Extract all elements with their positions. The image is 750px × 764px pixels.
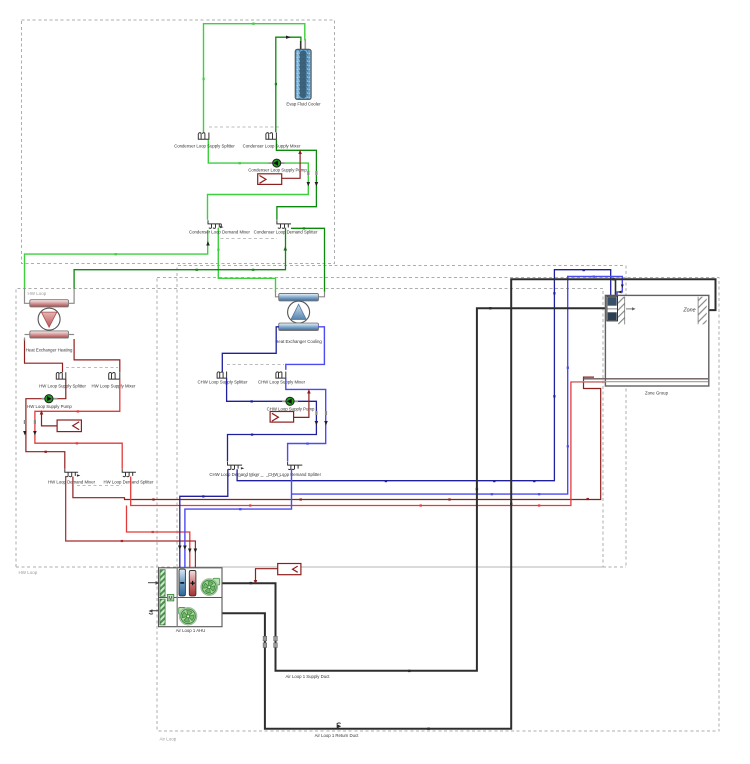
- node markers on ducts: [263, 636, 277, 647]
- wire CHW splitter through pump down to demand mixer (dark blue): [227, 378, 317, 461]
- wire HW coil supply drop (bright red): [127, 506, 190, 570]
- node+arrow markers on CHW riser pair: [315, 411, 328, 425]
- svg-text:Condenser Loop Supply Pump: Condenser Loop Supply Pump: [248, 168, 307, 173]
- heat exchanger heating (HW loop): [30, 300, 69, 338]
- fluid cooler (cooling tower): [295, 39, 311, 99]
- wire condenser branch return from HW HX (bright green): [25, 230, 208, 289]
- condenser demand connection-group dashed edge: [221, 238, 278, 240]
- CHW loop supply mixer: [276, 372, 286, 379]
- svg-text:Heat Exchanger Cooling: Heat Exchanger Cooling: [275, 339, 322, 344]
- svg-text:Condenser Loop Demand Mixer: Condenser Loop Demand Mixer: [189, 230, 250, 235]
- flow arrows on coil feed pipes: [188, 549, 192, 553]
- wire condenser supply: tower inlet riser (dark green): [276, 37, 301, 132]
- CHW supply connection-group dashed edge: [227, 364, 284, 366]
- heat exchanger cooling (CHW loop): [279, 294, 319, 331]
- svg-text:Air Loop 1 Supply Duct: Air Loop 1 Supply Duct: [286, 674, 331, 679]
- svg-text:HW Loop Demand Splitter: HW Loop Demand Splitter: [104, 480, 154, 485]
- zone bottom double line (water connection): [584, 378, 709, 380]
- wire supply duct AHU to zone (black): [222, 308, 605, 670]
- flow arrow on tower inlet line: [286, 36, 291, 39]
- svg-text:CHW Loop Supply Pump: CHW Loop Supply Pump: [267, 407, 315, 412]
- setpoint manager (air loop): [256, 564, 301, 582]
- HW loop supply pump: [42, 395, 58, 403]
- CHW loop demand splitter: [288, 462, 303, 470]
- CHW demand connection-group dashed edge: [238, 476, 287, 478]
- HW loop dashed boundary: [16, 289, 603, 568]
- air terminal unit: [607, 296, 618, 321]
- heating coil: [189, 571, 196, 596]
- relief air arrow: [152, 610, 159, 612]
- wire condenser demand splitter to HW HX right port (dark green): [74, 228, 285, 289]
- HW loop supply splitter: [56, 372, 66, 379]
- wire HW HX right port to supply mixer (dark red): [74, 339, 120, 372]
- node markers on HW demand lines: [152, 498, 589, 501]
- svg-text:Condenser Loop Demand Splitter: Condenser Loop Demand Splitter: [254, 230, 318, 235]
- wire HW coil return to demand mixer (dark red): [66, 477, 196, 570]
- wire condenser supply mixer to demand splitter (dark green): [276, 140, 316, 220]
- svg-text:Zone Group: Zone Group: [645, 391, 669, 396]
- svg-text:Heat Exchanger Heating: Heat Exchanger Heating: [26, 348, 73, 353]
- condenser loop supply splitter: [198, 133, 209, 140]
- wire condenser supply: tower outlet to supply splitter (bright green): [204, 24, 305, 133]
- HW loop demand mixer: [65, 469, 78, 477]
- flow arrow up into condenser demand mixer: [206, 241, 210, 245]
- svg-text:HW Loop Supply Splitter: HW Loop Supply Splitter: [39, 384, 86, 389]
- outdoor air intake arrow: [148, 582, 156, 584]
- supply fan: [201, 578, 220, 595]
- setpoint manager (HW loop): [42, 413, 82, 431]
- cooling coil: [179, 569, 185, 596]
- svg-text:Air Loop 1 Return Duct: Air Loop 1 Return Duct: [315, 733, 360, 738]
- condenser loop demand mixer: [208, 220, 221, 228]
- wire HW supply splitter through pump then down to demand mixer (dark red): [26, 379, 66, 469]
- wire gray connector condenser->HW HX left: [25, 289, 30, 304]
- svg-text:HW Loop Supply Mixer: HW Loop Supply Mixer: [92, 384, 137, 389]
- condenser supply connection-group dashed edge: [209, 126, 281, 128]
- svg-text:CHW Loop Supply Mixer: CHW Loop Supply Mixer: [258, 380, 306, 385]
- flow arrow on return duct bottom: [337, 724, 342, 729]
- interior wall hatching left: [618, 297, 625, 325]
- node markers on CHW demand lines: [202, 269, 585, 498]
- HW demand connection-group dashed edge: [77, 485, 122, 487]
- wire gray connector condenser->CHW HX right: [318, 292, 325, 297]
- wire CHW HX left port to supply splitter (dark blue): [222, 327, 279, 372]
- svg-text:CHW Loop Demand Splitter: CHW Loop Demand Splitter: [268, 472, 322, 477]
- node markers on CHW supply lines: [251, 400, 254, 435]
- wire CHW coil return to demand mixer (dark blue): [180, 469, 228, 569]
- svg-text:CHW Loop Demand Mixer: CHW Loop Demand Mixer: [209, 472, 260, 477]
- CHW loop dashed boundary: [177, 266, 626, 568]
- condenser loop demand splitter: [277, 220, 291, 228]
- HW loop demand splitter: [122, 469, 136, 477]
- wire CHW demand splitter to zone terminal supply (bright blue): [292, 277, 623, 495]
- svg-text:Condenser Loop Supply Splitter: Condenser Loop Supply Splitter: [174, 144, 235, 149]
- return fan: [179, 608, 197, 626]
- zone airflow arrow: [626, 308, 633, 310]
- wire CHW zone return to demand mixer (dark blue): [237, 270, 611, 481]
- svg-text:HW Loop: HW Loop: [19, 570, 38, 575]
- svg-text:HW Loop Supply Pump: HW Loop Supply Pump: [27, 404, 72, 409]
- flow arrows on CHW coil feed pipes: [178, 546, 182, 550]
- setpoint manager (condenser loop): [258, 153, 300, 185]
- wire HW supply mixer outlet to demand splitter (bright red): [35, 379, 122, 469]
- CHW loop supply pump: [282, 397, 298, 405]
- air loop dashed boundary: [157, 278, 719, 732]
- svg-text:HW Loop Demand Mixer: HW Loop Demand Mixer: [48, 480, 96, 485]
- wire HW zone return: zone to demand mixer (dark red): [73, 377, 601, 499]
- wire condenser demand mixer to CHW HX left port (bright green): [218, 228, 275, 292]
- svg-text:HW Loop: HW Loop: [28, 291, 47, 296]
- condenser loop supply mixer: [266, 133, 277, 140]
- condenser loop supply pump: [269, 159, 285, 167]
- node markers on HW lines: [76, 410, 79, 444]
- condenser loop dashed boundary: [22, 20, 335, 264]
- wire CHW demand splitter to coil supply (bright blue): [185, 469, 292, 569]
- HW+CHW overlapped bottom edge (renders solid): [177, 566, 603, 568]
- CHW loop demand mixer: [228, 462, 243, 470]
- svg-text:CHW Loop Supply Splitter: CHW Loop Supply Splitter: [198, 380, 248, 385]
- svg-text:M: M: [168, 596, 172, 602]
- relief air louver (bottom): [160, 599, 165, 625]
- CHW loop supply splitter: [217, 372, 227, 379]
- svg-text:Air Loop 1 AHU: Air Loop 1 AHU: [176, 628, 206, 633]
- wire condenser demand splitter branch to CHW HX right port (dark green): [291, 228, 325, 292]
- wire condenser supply: splitter to pump to mixer drop (bright green): [208, 140, 309, 220]
- svg-text:Condenser Loop Supply Mixer: Condenser Loop Supply Mixer: [243, 144, 301, 149]
- svg-text:Air Loop: Air Loop: [160, 737, 177, 742]
- svg-text:Zone: Zone: [682, 307, 695, 313]
- wire HW HX left port to supply splitter (dark red): [25, 339, 63, 372]
- flow arrows near zone terminal (bright blue): [621, 285, 624, 289]
- wire terminal supply stub (black): [615, 280, 617, 297]
- node+arrow markers on HW riser pair: [23, 420, 37, 435]
- svg-text:Evap Fluid Cooler: Evap Fluid Cooler: [286, 102, 321, 107]
- setpoint manager (CHW loop): [270, 392, 309, 422]
- node markers on condenser lines: [115, 23, 255, 256]
- interior wall hatching right: [698, 297, 707, 325]
- HW supply connection-group dashed edge: [66, 367, 118, 369]
- wire CHW HX right port to supply mixer (bright blue): [286, 327, 325, 370]
- wire CHW mixer outlet down to demand splitter (bright blue): [286, 378, 326, 461]
- flow arrow up on HW HX branch: [284, 246, 288, 250]
- wire return duct zone to AHU (black): [222, 279, 716, 728]
- wire gray connector condenser->HW HX right: [69, 289, 74, 304]
- outdoor air louver (top): [160, 570, 165, 597]
- HW loop supply mixer: [109, 372, 120, 379]
- motorized damper M: [167, 595, 174, 601]
- node+arrow markers on condenser riser pair: [307, 171, 319, 186]
- wire gray connector condenser->CHW HX left: [276, 292, 280, 297]
- wire HW demand splitter to zone supply (bright red): [131, 382, 605, 506]
